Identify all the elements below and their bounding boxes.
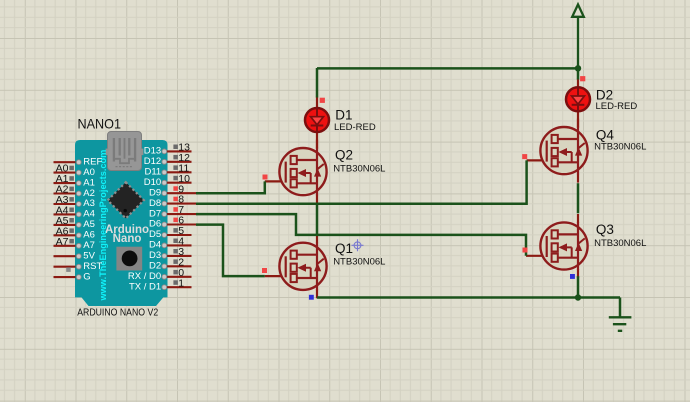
- svg-text:5V: 5V: [83, 250, 95, 261]
- LED D1 pins: [316, 97, 318, 149]
- origin marker near Q1: [352, 239, 364, 251]
- transistor Q4 gate marker: [522, 154, 527, 159]
- svg-text:Q3: Q3: [596, 222, 614, 237]
- transistor Q2 source pin: [316, 195, 318, 204]
- NANO1 body: [75, 140, 168, 306]
- wire Q2 source to Q1 drain: [316, 204, 319, 235]
- pin D6 (net 6): [149, 215, 196, 230]
- pin A6: [54, 225, 95, 240]
- pin A1: [54, 173, 95, 188]
- transistor Q1 source pin: [316, 289, 318, 298]
- LED D1: [305, 108, 329, 132]
- Arduino Nano NANO1: [54, 116, 197, 319]
- svg-text:D4: D4: [149, 240, 161, 251]
- svg-text:D8: D8: [149, 198, 161, 209]
- svg-text:A2: A2: [83, 188, 95, 199]
- transistor Q2 drain pin: [316, 140, 318, 149]
- svg-text:A7: A7: [56, 236, 69, 248]
- svg-text:LED-RED: LED-RED: [334, 122, 376, 133]
- transistor Q4 source pin: [577, 174, 579, 183]
- svg-text:A6: A6: [83, 230, 95, 241]
- svg-text:G: G: [83, 271, 90, 282]
- svg-text:NANO1: NANO1: [78, 116, 122, 132]
- svg-text:A7: A7: [83, 240, 95, 251]
- svg-text:1: 1: [178, 277, 184, 289]
- transistor Q2 gate marker: [263, 175, 268, 180]
- pin A3: [54, 194, 95, 209]
- pin A7: [54, 236, 95, 251]
- LED D2 pin marker: [580, 76, 585, 81]
- pin A2: [54, 184, 95, 199]
- svg-text:A1: A1: [83, 177, 95, 188]
- svg-text:D3: D3: [149, 250, 161, 261]
- svg-text:Nano: Nano: [113, 233, 142, 245]
- pin A0: [54, 163, 95, 178]
- wire VCC rail drop to D2 anode: [577, 68, 580, 80]
- pin D2 (net 2): [149, 256, 191, 271]
- transistor Q1: [279, 242, 326, 290]
- LED D2 pins: [577, 79, 579, 128]
- pin D12 (net 12): [144, 152, 192, 167]
- pin D13 (net 13): [144, 142, 192, 157]
- svg-text:D11: D11: [144, 167, 161, 178]
- pin D8 (net 8): [149, 194, 196, 209]
- svg-text:RX / D0: RX / D0: [128, 271, 161, 282]
- svg-text:D9: D9: [149, 187, 161, 198]
- svg-text:A5: A5: [83, 219, 95, 230]
- svg-text:D1: D1: [335, 107, 352, 122]
- transistor Q4 drain pin: [577, 119, 579, 128]
- svg-text:D12: D12: [144, 156, 161, 167]
- wire D7 to Q3 gate: [196, 214, 526, 256]
- transistor Q3: [540, 222, 587, 270]
- wire ground bus: [317, 298, 620, 318]
- ground: [609, 317, 632, 331]
- wire D6 to Q1 gate: [196, 225, 265, 277]
- transistor Q4 gate pin: [527, 159, 548, 161]
- pin D5 (net 5): [149, 225, 191, 240]
- svg-text:D7: D7: [149, 208, 161, 219]
- junction node ground bus: [575, 294, 581, 300]
- NANO1 crystal: [116, 247, 142, 271]
- pin A5: [54, 215, 95, 230]
- transistor Q4: [540, 127, 587, 175]
- svg-text:Q4: Q4: [596, 127, 615, 142]
- svg-text:TX / D1: TX / D1: [129, 281, 161, 292]
- NANO1 USB connector: [106, 132, 144, 171]
- svg-text:A3: A3: [83, 198, 95, 209]
- transistor Q2: [279, 148, 326, 196]
- svg-text:NTB30N06L: NTB30N06L: [333, 257, 385, 268]
- wire VCC rail drop to D1 anode: [316, 68, 319, 98]
- wire D9 to Q2 gate: [196, 181, 265, 193]
- transistor Q3 gate marker: [523, 248, 528, 253]
- svg-text:ARDUINO NANO V2: ARDUINO NANO V2: [77, 307, 158, 319]
- svg-text:NTB30N06L: NTB30N06L: [594, 238, 646, 249]
- pin RST: [54, 261, 103, 272]
- wire top rail from D1 to VCC: [317, 67, 578, 70]
- junction node VCC rail: [575, 65, 581, 71]
- svg-text:www.TheEngineeringProjects.com: www.TheEngineeringProjects.com: [98, 150, 108, 302]
- svg-text:D2: D2: [149, 261, 161, 272]
- power symbol VCC: [572, 5, 584, 69]
- transistor Q1 gate marker: [262, 268, 267, 273]
- transistor Q3 source pin: [577, 269, 579, 278]
- pin REF: [54, 156, 103, 167]
- pin TX / D1 (net 1): [129, 277, 192, 292]
- wire D8 to Q4 gate: [196, 160, 527, 203]
- transistor Q1 gate pin: [265, 275, 287, 277]
- svg-text:D5: D5: [149, 229, 161, 240]
- svg-text:NTB30N06L: NTB30N06L: [333, 164, 385, 175]
- svg-text:REF: REF: [83, 156, 102, 167]
- pin D9 (net 9): [149, 183, 196, 198]
- transistor Q3 drain pin: [577, 214, 579, 223]
- pin D7 (net 7): [149, 204, 196, 219]
- transistor Q2 gate pin: [265, 180, 287, 182]
- pin G: [54, 271, 91, 282]
- pin D10 (net 10): [144, 173, 192, 188]
- svg-text:D13: D13: [144, 146, 161, 157]
- svg-text:Q1: Q1: [335, 241, 353, 256]
- pin D4 (net 4): [149, 236, 191, 251]
- svg-text:D6: D6: [149, 219, 161, 230]
- LED D1 pin marker: [320, 98, 325, 103]
- svg-text:A4: A4: [83, 209, 95, 220]
- transistor Q3 gate pin: [526, 255, 548, 257]
- pin D3 (net 3): [149, 246, 191, 261]
- svg-text:LED-RED: LED-RED: [596, 101, 638, 112]
- svg-text:A0: A0: [83, 167, 95, 178]
- svg-text:D10: D10: [144, 177, 161, 188]
- svg-text:NTB30N06L: NTB30N06L: [594, 142, 646, 153]
- pin RX / D0 (net 0): [128, 267, 192, 282]
- pin D11 (net 11): [144, 162, 191, 177]
- svg-text:Q2: Q2: [335, 148, 353, 163]
- NANO1 MCU chip: [108, 182, 144, 218]
- node Q1 source marker: [309, 295, 314, 300]
- wire Q4 source to Q3 drain: [577, 183, 580, 213]
- transistor Q1 drain pin: [316, 234, 318, 243]
- pin 5V: [54, 250, 96, 261]
- LED D2: [566, 87, 590, 111]
- pin A4: [54, 205, 95, 220]
- wire Q3 source to ground bus: [577, 276, 580, 297]
- svg-text:RST: RST: [83, 261, 102, 272]
- node Q3 source marker: [570, 274, 575, 279]
